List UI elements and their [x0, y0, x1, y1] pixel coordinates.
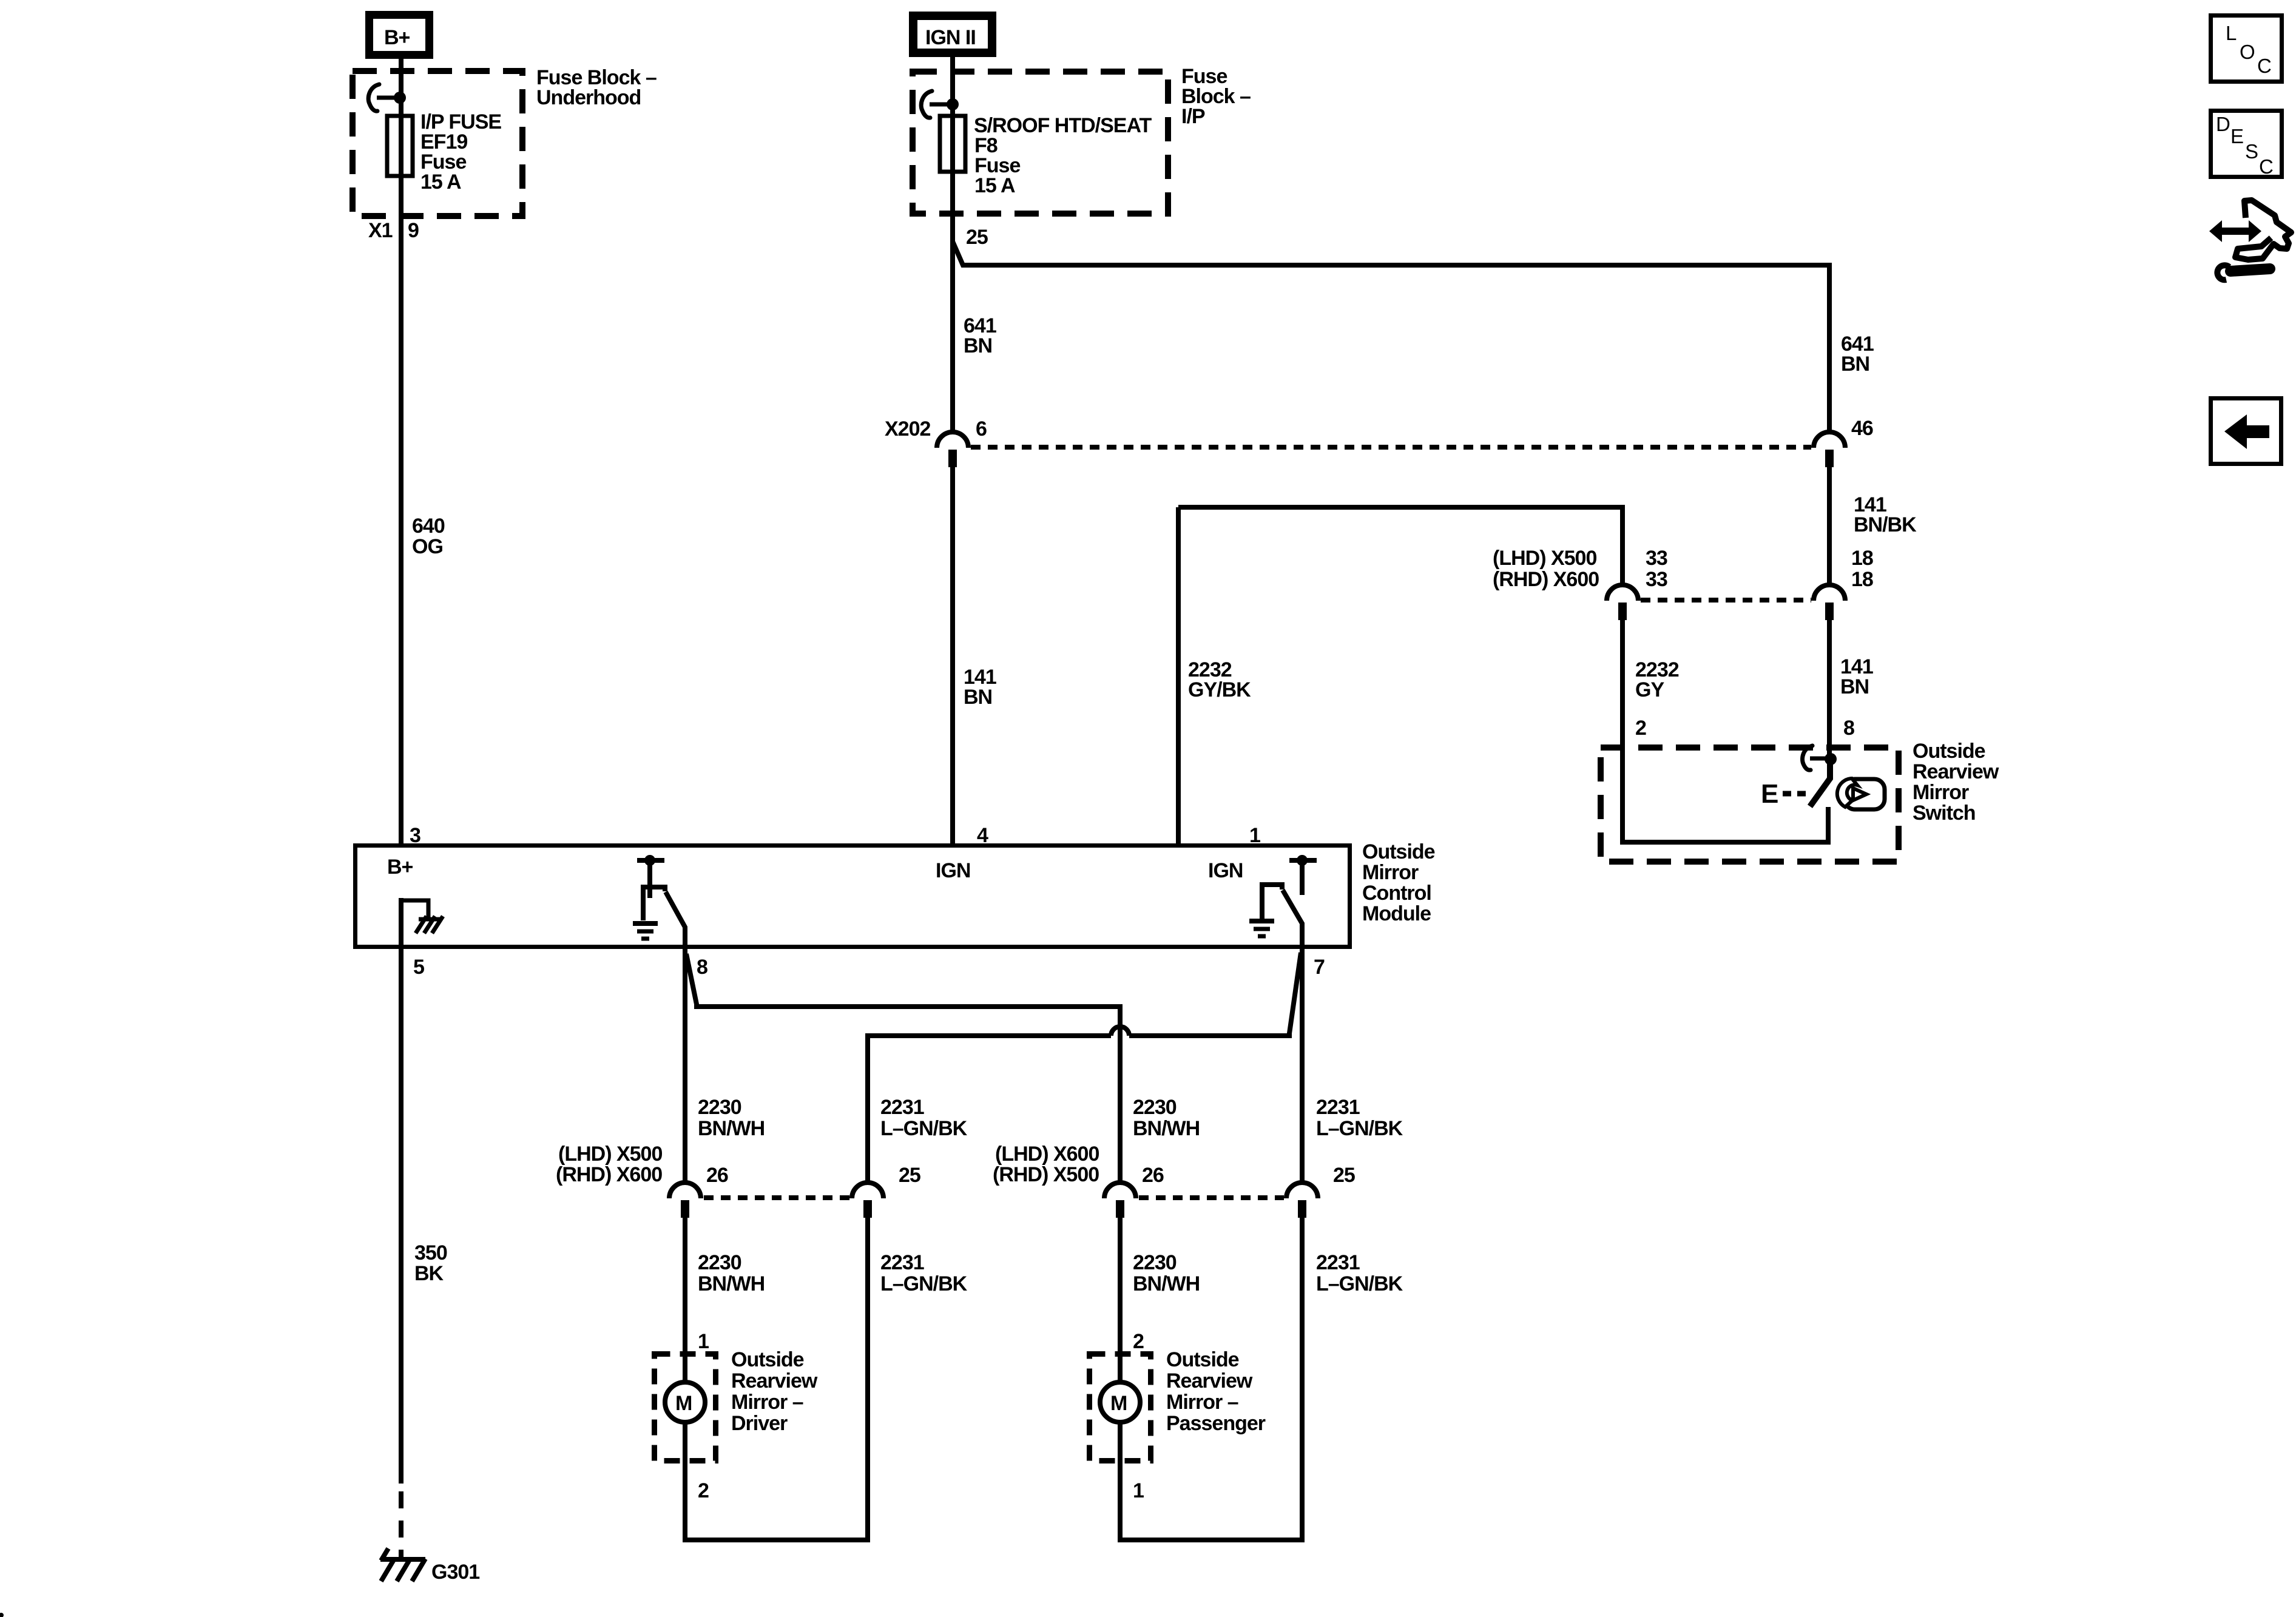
svg-text:1: 1 — [1133, 1479, 1144, 1502]
svg-text:2230: 2230 — [698, 1251, 741, 1274]
svg-text:(LHD) X600: (LHD) X600 — [995, 1143, 1099, 1166]
svg-text:Rearview: Rearview — [731, 1369, 818, 1393]
svg-text:1: 1 — [698, 1330, 709, 1353]
svg-text:L: L — [2226, 22, 2237, 44]
page corner mark — [0, 1613, 4, 1617]
svg-text:GY/BK: GY/BK — [1188, 678, 1251, 701]
svg-text:O: O — [2240, 41, 2255, 63]
wire IGN II feed vertical — [950, 55, 955, 432]
DESC reference box — [2211, 111, 2282, 178]
svg-text:Underhood: Underhood — [536, 86, 641, 109]
module internal ground switch left (pin 8) — [633, 855, 685, 947]
switch pivot hook and dot — [1803, 746, 1837, 770]
svg-text:G301: G301 — [431, 1561, 479, 1584]
svg-text:25: 25 — [1333, 1164, 1355, 1187]
fuse block underhood dashed box — [353, 71, 522, 216]
svg-text:BN/WH: BN/WH — [1133, 1117, 1200, 1140]
svg-text:GY: GY — [1635, 678, 1664, 701]
svg-text:E: E — [2230, 125, 2244, 147]
svg-text:Switch: Switch — [1913, 802, 1976, 825]
wire 2232 GY to switch pin 2 — [1622, 620, 1828, 842]
wire 141 BN/BK right vertical — [1827, 467, 1832, 584]
svg-text:8: 8 — [697, 956, 707, 979]
outside mirror control module box — [356, 846, 1350, 947]
dashed connector line right pair — [1139, 1195, 1284, 1200]
svg-text:Rearview: Rearview — [1913, 760, 1999, 783]
connector pin 18 — [1814, 585, 1845, 620]
svg-text:C: C — [2257, 55, 2272, 77]
svg-text:Outside: Outside — [1362, 840, 1435, 863]
svg-text:9: 9 — [408, 219, 419, 242]
connector pin 26 col1 — [669, 1183, 701, 1218]
connector pin 25 col4 — [1286, 1183, 1318, 1218]
wire 2232 branch horizontal — [1178, 507, 1622, 584]
back arrow box — [2211, 399, 2281, 464]
svg-text:2230: 2230 — [1133, 1251, 1177, 1274]
wire pin 7 down col4 — [1300, 949, 1305, 1183]
svg-text:15 A: 15 A — [974, 174, 1015, 197]
svg-text:18: 18 — [1851, 547, 1873, 570]
wire 641 BN horizontal run to right side — [953, 241, 1829, 432]
svg-text:Outside: Outside — [1913, 740, 1985, 763]
svg-text:BN/WH: BN/WH — [698, 1117, 765, 1140]
svg-text:D: D — [2216, 113, 2230, 135]
wire pin 8 branch to col3 — [686, 954, 1120, 1183]
svg-text:2231: 2231 — [1316, 1251, 1360, 1274]
svg-text:X1: X1 — [368, 219, 393, 242]
dashed connector line left pair — [704, 1195, 849, 1200]
svg-text:Mirror –: Mirror – — [731, 1391, 803, 1414]
svg-text:Module: Module — [1362, 902, 1431, 925]
wire 141 BN to switch pin 8 — [1827, 620, 1832, 755]
svg-text:46: 46 — [1851, 417, 1873, 440]
switch blade — [1810, 760, 1830, 806]
connector X202 pin 6 — [937, 432, 968, 467]
svg-text:2: 2 — [1635, 717, 1646, 740]
svg-text:L–GN/BK: L–GN/BK — [1316, 1272, 1403, 1295]
svg-text:Mirror: Mirror — [1362, 861, 1419, 884]
svg-text:M: M — [675, 1392, 692, 1415]
svg-text:BN: BN — [1840, 675, 1869, 698]
svg-text:Outside: Outside — [731, 1348, 804, 1371]
svg-text:350: 350 — [414, 1241, 447, 1264]
wire pin 8 down col1 — [683, 949, 687, 1183]
svg-text:7: 7 — [1314, 956, 1325, 979]
svg-text:Control: Control — [1362, 882, 1431, 905]
svg-text:2230: 2230 — [1133, 1096, 1177, 1119]
svg-text:Mirror: Mirror — [1913, 781, 1969, 804]
svg-text:(RHD) X600: (RHD) X600 — [556, 1163, 662, 1186]
svg-text:25: 25 — [966, 226, 988, 249]
svg-text:2231: 2231 — [880, 1096, 924, 1119]
svg-text:6: 6 — [976, 417, 987, 441]
svg-text:15 A: 15 A — [420, 170, 461, 194]
module internal chassis ground at pin 5 — [401, 898, 443, 949]
outside rearview mirror passenger motor — [1090, 1354, 1151, 1463]
svg-text:(RHD) X600: (RHD) X600 — [1493, 568, 1599, 591]
svg-text:2231: 2231 — [1316, 1096, 1360, 1119]
svg-text:L–GN/BK: L–GN/BK — [880, 1117, 968, 1140]
wires below connectors — [683, 1218, 687, 1354]
svg-text:C: C — [2259, 155, 2274, 178]
svg-text:L–GN/BK: L–GN/BK — [880, 1272, 968, 1295]
svg-text:3: 3 — [410, 824, 420, 847]
wire 350 BK from pin 5 — [399, 949, 403, 1484]
service icon wrench with arrows — [2209, 200, 2291, 280]
svg-text:2: 2 — [1133, 1330, 1144, 1353]
svg-text:(RHD) X500: (RHD) X500 — [993, 1163, 1099, 1186]
wire pin 7 branch to col2 with hop over col3 — [1129, 953, 1301, 1036]
connector hook at IGN II fuse feed — [921, 91, 959, 118]
svg-text:BN: BN — [964, 334, 992, 357]
wire B+ feed vertical 640 OG — [399, 55, 403, 845]
svg-text:(LHD) X500: (LHD) X500 — [558, 1143, 662, 1166]
svg-text:26: 26 — [706, 1164, 728, 1187]
LOC reference box — [2211, 16, 2282, 82]
svg-text:Rearview: Rearview — [1166, 1369, 1253, 1393]
outside rearview mirror switch dashed box — [1601, 748, 1899, 862]
svg-text:(LHD) X500: (LHD) X500 — [1493, 547, 1596, 570]
dashed connector line 33-18 — [1641, 598, 1811, 603]
connector pin 25 col2 — [852, 1183, 883, 1218]
svg-text:1: 1 — [1249, 824, 1260, 847]
X202 dashed connector line — [971, 445, 1811, 450]
svg-text:BN/BK: BN/BK — [1854, 513, 1917, 536]
svg-text:L–GN/BK: L–GN/BK — [1316, 1117, 1403, 1140]
svg-text:B+: B+ — [387, 856, 413, 879]
svg-text:BN: BN — [964, 686, 992, 709]
svg-text:I/P: I/P — [1181, 105, 1205, 128]
svg-text:BN: BN — [1841, 353, 1869, 376]
svg-text:18: 18 — [1851, 568, 1873, 591]
svg-text:Mirror –: Mirror – — [1166, 1391, 1238, 1414]
svg-text:8: 8 — [1843, 717, 1854, 740]
connector X500/X600 pin 33 — [1607, 585, 1638, 620]
svg-text:IGN II: IGN II — [925, 26, 976, 49]
svg-text:2: 2 — [698, 1479, 709, 1502]
svg-text:26: 26 — [1142, 1164, 1164, 1187]
fuse EF19 15A — [387, 116, 413, 176]
svg-text:25: 25 — [899, 1164, 920, 1187]
connector pin 26 col3 — [1104, 1183, 1136, 1218]
svg-text:Passenger: Passenger — [1166, 1412, 1266, 1435]
wire 141 BN below X202 to module pin 4 — [950, 467, 955, 845]
svg-text:E: E — [1761, 779, 1778, 809]
wire 2232 GY/BK to module pin 1 — [1176, 507, 1181, 845]
svg-text:33: 33 — [1646, 568, 1667, 591]
svg-text:640: 640 — [412, 515, 445, 538]
svg-text:4: 4 — [977, 824, 988, 847]
outside rearview mirror driver motor — [655, 1354, 716, 1463]
svg-text:IGN: IGN — [1208, 859, 1243, 882]
svg-text:X202: X202 — [885, 417, 930, 441]
fuse block I/P dashed box — [913, 72, 1168, 214]
svg-text:2231: 2231 — [880, 1251, 924, 1274]
connector X202 pin 46 — [1814, 432, 1845, 467]
svg-text:Driver: Driver — [731, 1412, 788, 1435]
svg-text:BN/WH: BN/WH — [1133, 1272, 1200, 1295]
svg-text:Outside: Outside — [1166, 1348, 1239, 1371]
svg-text:33: 33 — [1646, 547, 1667, 570]
fuse F8 15A — [940, 116, 965, 172]
svg-text:OG: OG — [412, 535, 443, 558]
node B+ power label box — [370, 15, 430, 55]
connector hook at B+ fuse feed — [368, 84, 406, 111]
svg-text:2230: 2230 — [698, 1096, 741, 1119]
module internal ground switch right (pin 7) — [1249, 855, 1317, 947]
svg-text:B+: B+ — [384, 26, 410, 49]
svg-text:S/ROOF HTD/SEAT: S/ROOF HTD/SEAT — [974, 114, 1152, 137]
svg-text:BN/WH: BN/WH — [698, 1272, 765, 1295]
svg-text:M: M — [1110, 1392, 1127, 1415]
svg-text:S: S — [2245, 140, 2258, 163]
node IGN II power label box — [913, 16, 992, 53]
svg-text:BK: BK — [414, 1262, 444, 1285]
ground G301 — [380, 1548, 425, 1581]
svg-text:IGN: IGN — [936, 859, 970, 882]
svg-text:5: 5 — [413, 956, 424, 979]
switch rotate icon — [1837, 778, 1885, 809]
